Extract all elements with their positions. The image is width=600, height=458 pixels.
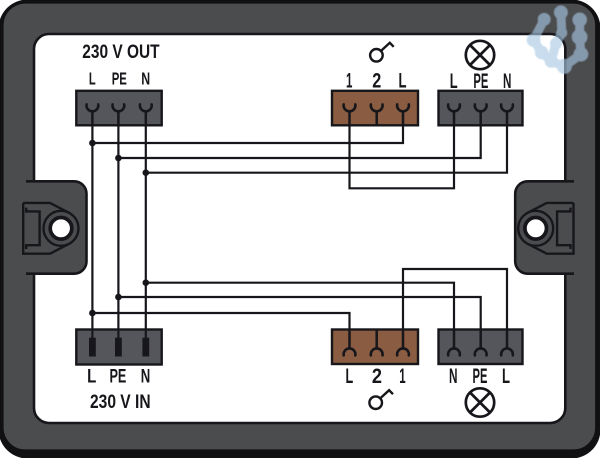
terminal X4-N pin contact bbox=[142, 338, 149, 357]
junction L out bbox=[89, 140, 96, 147]
svg-text:N: N bbox=[141, 365, 151, 387]
wire switched live X2-1 to lamp X3-L bbox=[350, 125, 455, 188]
junction N in bbox=[143, 279, 150, 286]
terminal X4-PE pin contact bbox=[115, 338, 122, 357]
svg-text:PE: PE bbox=[473, 364, 488, 388]
terminal X3-N socket contact bbox=[501, 104, 513, 125]
wire N in to lamp X6-N bbox=[146, 283, 454, 330]
switch symbol S1 (top) bbox=[370, 43, 394, 62]
left mounting tab bbox=[26, 181, 87, 273]
terminal labels N PE L (lamp block X6) bbox=[449, 364, 510, 388]
terminal block X5 switch bottom (brown) bbox=[332, 330, 418, 365]
wire L bus vertical X1-L to X4-L bbox=[91, 125, 93, 340]
svg-text:230 V OUT: 230 V OUT bbox=[82, 42, 160, 63]
wire N bus vertical X1-N to X4-N bbox=[145, 125, 147, 340]
svg-text:N: N bbox=[449, 364, 458, 388]
wire switched live X5-1 to lamp X6-L bbox=[403, 269, 507, 330]
svg-text:L: L bbox=[89, 69, 96, 89]
terminal labels L PE N (output block X1) bbox=[89, 69, 150, 89]
junction PE in bbox=[115, 294, 122, 301]
svg-text:N: N bbox=[503, 69, 511, 93]
right mounting screw boss bbox=[518, 203, 573, 254]
right mounting tab bbox=[515, 181, 574, 273]
terminal X4-L pin contact bbox=[89, 338, 96, 357]
terminal labels 1 2 L (switch block X2) bbox=[346, 69, 407, 93]
terminal labels L PE N (lamp block X3) bbox=[450, 69, 512, 93]
terminal X6-L socket contact bbox=[501, 330, 513, 356]
lamp symbol E1 (top) bbox=[466, 41, 494, 69]
terminal block X4 230V IN bbox=[76, 330, 161, 365]
terminal X2-L socket contact bbox=[397, 104, 409, 125]
junction L in bbox=[89, 310, 96, 317]
svg-text:L: L bbox=[87, 365, 96, 387]
svg-text:L: L bbox=[502, 364, 510, 388]
terminal X6-N socket contact bbox=[448, 330, 460, 356]
terminal X5-L socket contact bbox=[344, 330, 356, 356]
switch symbol S2 (bottom) bbox=[369, 390, 393, 409]
wire PE bus vertical X1-PE to X4-PE bbox=[117, 125, 119, 340]
terminal X5-2 socket contact bbox=[371, 330, 383, 356]
left mounting screw boss bbox=[23, 203, 78, 254]
terminal block X6 lamp bottom (grey) bbox=[439, 330, 523, 365]
svg-text:PE: PE bbox=[112, 69, 127, 89]
watermark logo dots bbox=[527, 5, 589, 74]
junction N out bbox=[143, 169, 150, 176]
svg-text:L: L bbox=[345, 364, 353, 388]
terminal labels L 2 1 (switch block X5) bbox=[345, 364, 405, 388]
terminal block X2 switch top (brown) bbox=[332, 91, 418, 126]
wire L out to switch X2-L bbox=[92, 125, 403, 143]
terminal block X3 lamp top (grey) bbox=[439, 91, 523, 126]
lamp symbol E2 (bottom) bbox=[466, 388, 494, 416]
terminal X6-PE socket contact bbox=[475, 330, 487, 356]
junction PE out bbox=[115, 155, 122, 162]
svg-text:1: 1 bbox=[346, 69, 352, 93]
terminal X1-N socket contact bbox=[140, 104, 152, 125]
svg-text:N: N bbox=[141, 69, 150, 89]
wire L in to switch X5-L bbox=[92, 313, 349, 330]
terminal X2-2 socket contact bbox=[371, 104, 383, 125]
enclosure inner opening bbox=[34, 34, 565, 423]
terminal X2-1 socket contact bbox=[344, 104, 356, 125]
svg-text:PE: PE bbox=[109, 365, 126, 387]
terminal X5-1 socket contact bbox=[397, 330, 409, 356]
terminal X1-L socket contact bbox=[87, 104, 99, 125]
svg-text:2: 2 bbox=[372, 364, 382, 388]
svg-text:2: 2 bbox=[372, 69, 381, 93]
svg-text:PE: PE bbox=[473, 69, 488, 93]
terminal X3-PE socket contact bbox=[475, 104, 487, 125]
svg-text:L: L bbox=[450, 69, 458, 93]
terminal X3-L socket contact bbox=[448, 104, 460, 125]
svg-text:230 V IN: 230 V IN bbox=[90, 391, 151, 413]
svg-text:1: 1 bbox=[399, 364, 405, 388]
terminal X1-PE socket contact bbox=[113, 104, 125, 125]
terminal block X1 230V OUT bbox=[76, 91, 161, 126]
terminal labels L PE N (input block X4) bbox=[87, 365, 150, 387]
wire PE out to lamp X3-PE bbox=[118, 125, 480, 158]
wire N out to lamp X3-N bbox=[146, 125, 507, 172]
svg-text:L: L bbox=[399, 69, 407, 93]
wire PE in to lamp X6-PE bbox=[118, 297, 480, 330]
